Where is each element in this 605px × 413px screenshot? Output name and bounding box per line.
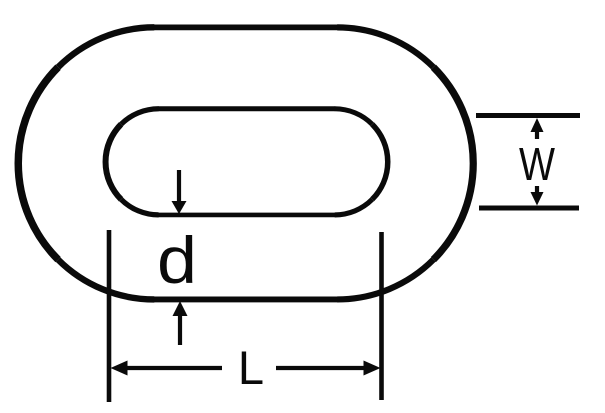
- chain link outer outline: top straight: [153, 25, 338, 31]
- dimension W: top extension line: [476, 113, 580, 118]
- dimension L: left extension line: [107, 230, 112, 402]
- dimension L: right extension line: [379, 232, 384, 400]
- dimension W: bottom extension line: [479, 206, 579, 211]
- chain link inner hole: left arc: [121, 199, 159, 215]
- dimension W: up arrow: [531, 118, 544, 139]
- chain link outer outline: right arc: [337, 27, 433, 67]
- dimension W: down arrow: [531, 186, 544, 206]
- dimension L: right dimension line with arrow: [276, 361, 381, 376]
- dimension d: down arrow inside hole: [172, 170, 187, 214]
- svg-text:d: d: [157, 224, 197, 298]
- dimension d: up arrow below link: [173, 301, 188, 345]
- dimension L: left dimension line with arrow: [111, 361, 223, 376]
- chain link outer outline: bottom straight: [153, 297, 338, 303]
- svg-text:L: L: [238, 341, 264, 394]
- chain link inner hole: right arc: [335, 109, 373, 125]
- svg-text:W: W: [519, 140, 555, 191]
- chain link inner hole: bottom straight: [158, 213, 335, 218]
- chain link outer outline: left arc: [58, 260, 154, 300]
- chain link inner hole: top straight: [158, 106, 335, 111]
